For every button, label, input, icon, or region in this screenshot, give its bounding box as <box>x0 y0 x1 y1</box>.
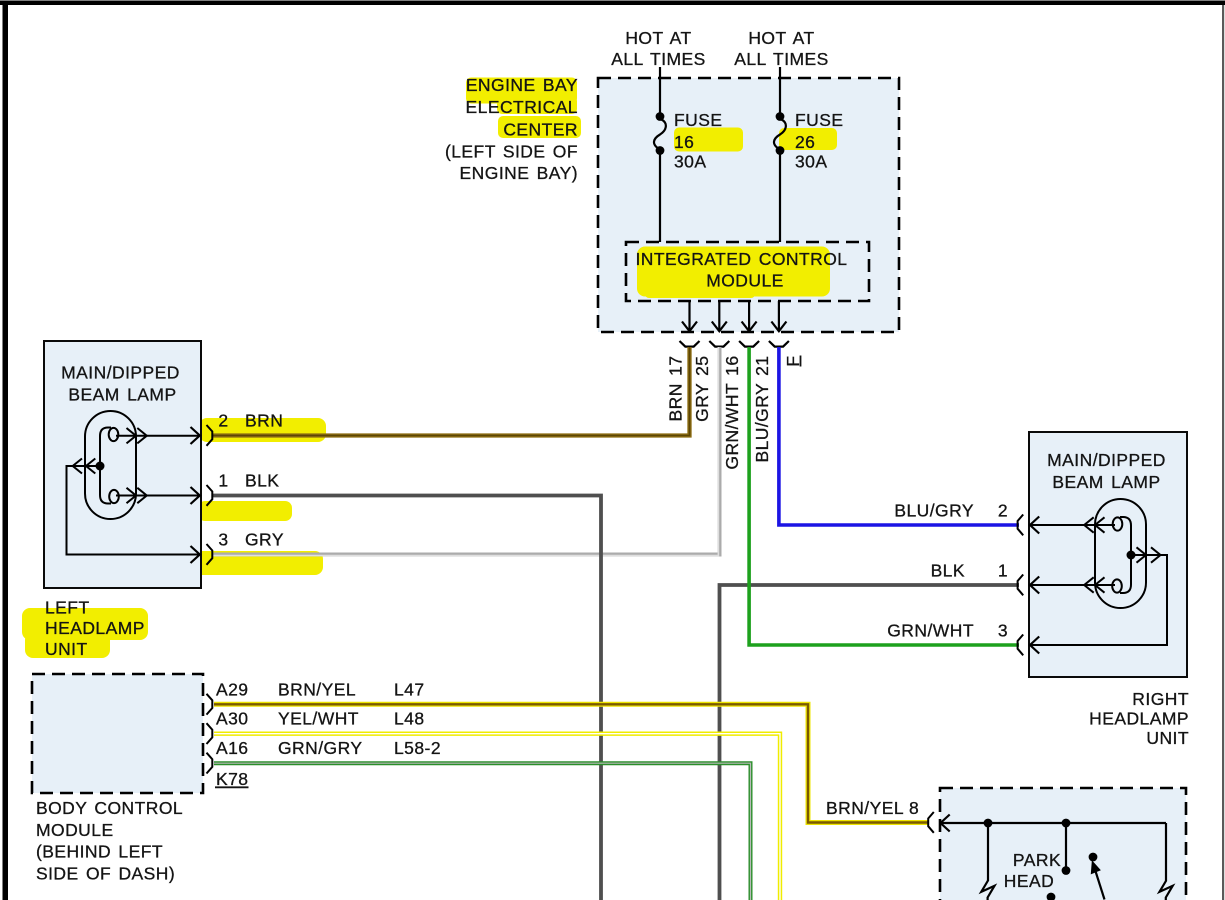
svg-text:HEADLAMP: HEADLAMP <box>45 618 145 638</box>
wire GRN/WHT from ICM pin 16 to right lamp pin 3 <box>749 347 1019 645</box>
wire fuse 16 to ICM <box>659 151 661 242</box>
svg-text:L47: L47 <box>394 680 425 700</box>
highlight fuse 26 <box>779 128 837 150</box>
svg-text:FUSE: FUSE <box>795 110 843 130</box>
svg-text:GRY 25: GRY 25 <box>692 356 712 422</box>
svg-text:BLU/GRY 21: BLU/GRY 21 <box>752 356 772 463</box>
fuse F26 <box>774 112 786 155</box>
left lamp connector bracket pin 3 <box>207 544 213 565</box>
connector cup pin 16 <box>739 341 759 347</box>
wire BLK to right lamp pin 1 <box>720 585 1020 900</box>
label engine bay electrical center <box>445 75 578 183</box>
ICM output arrow pin BRN <box>682 301 697 331</box>
svg-text:HOT AT: HOT AT <box>625 28 691 48</box>
label right headlamp unit <box>1089 689 1189 748</box>
svg-text:BRN 17: BRN 17 <box>666 356 686 422</box>
svg-text:BRN/YEL: BRN/YEL <box>278 680 356 700</box>
svg-text:BLU/GRY: BLU/GRY <box>894 501 974 521</box>
label body control module <box>36 798 183 883</box>
label main/dipped beam lamp left <box>61 363 180 405</box>
park branch zigzag contact <box>981 881 994 900</box>
right lamp common arrowheads <box>1030 547 1161 653</box>
svg-text:PARK: PARK <box>1013 850 1061 870</box>
right lamp connector bracket pin 1 <box>1018 575 1024 596</box>
junction dot head branch <box>1062 819 1071 828</box>
left lamp filament arrowheads pin 1 <box>127 487 200 504</box>
switch lever arrow <box>1092 862 1105 900</box>
wire BLK from left lamp pin 1 down <box>213 496 601 900</box>
svg-text:L58-2: L58-2 <box>394 738 441 758</box>
K78 underline <box>215 786 249 788</box>
lower contact dot <box>1047 893 1056 900</box>
svg-text:2: 2 <box>998 501 1008 521</box>
right lamp common wire to pin 3 <box>1031 555 1168 645</box>
left lamp inner bracket <box>100 428 111 504</box>
svg-text:ENGINE BAY: ENGINE BAY <box>466 75 578 95</box>
svg-text:BRN: BRN <box>245 411 283 431</box>
park/head bus wire <box>941 822 1167 824</box>
svg-text:K78: K78 <box>216 769 249 789</box>
label BLK 1 <box>931 561 1009 581</box>
svg-text:YEL/WHT: YEL/WHT <box>278 709 359 729</box>
BCM connector bracket A29 <box>207 694 213 715</box>
right lamp filament line pin 1 <box>1031 584 1116 586</box>
label A30 YEL/WHT L48 <box>216 709 425 729</box>
wire fuse 16 feed <box>659 67 661 116</box>
left lamp common wire to pin 3 <box>67 466 200 555</box>
svg-text:CENTER: CENTER <box>503 120 578 140</box>
svg-text:ENGINE BAY): ENGINE BAY) <box>460 163 578 183</box>
label GRN/WHT 3 <box>887 621 1008 641</box>
label left headlamp unit <box>45 598 145 660</box>
svg-text:BRN/YEL: BRN/YEL <box>826 798 904 818</box>
label A16 GRN/GRY L58-2 <box>216 738 441 758</box>
svg-text:UNIT: UNIT <box>1146 728 1189 748</box>
svg-text:GRN/WHT 16: GRN/WHT 16 <box>722 356 742 470</box>
svg-text:HOT AT: HOT AT <box>748 28 814 48</box>
junction dot park branch <box>984 819 993 828</box>
left lamp common arrowheads <box>73 459 200 564</box>
right lamp outer envelope <box>1095 499 1146 608</box>
wire GRN/GRY from BCM A16 down <box>214 763 751 900</box>
body control module box <box>32 674 203 793</box>
connector cup pin 17 <box>680 341 700 347</box>
right lamp coil pin 1 <box>1112 579 1122 592</box>
label HOT AT ALL TIMES right <box>734 28 829 69</box>
right lamp filament arrowheads pin 2 <box>1030 517 1105 534</box>
svg-text:MAIN/DIPPED: MAIN/DIPPED <box>61 363 180 383</box>
svg-text:A16: A16 <box>216 738 249 758</box>
head branch contact dot <box>1062 866 1071 875</box>
switch throw contact dot <box>1089 853 1098 862</box>
right lamp inner bracket <box>1120 517 1131 593</box>
wire BLU/GRY from ICM pin 21 to right lamp pin 2 <box>779 347 1019 525</box>
right lamp connector bracket pin 3 <box>1018 635 1024 656</box>
right headlamp unit box <box>1029 432 1187 677</box>
highlight fuse 16 <box>674 128 743 152</box>
label HOT AT ALL TIMES left <box>611 28 706 69</box>
wire BRN/YEL from BCM A29 to park/head connector 8 <box>214 704 928 822</box>
wire fuse 26 feed <box>779 67 781 116</box>
svg-text:8: 8 <box>909 798 919 818</box>
label BRN/YEL 8 <box>826 798 919 818</box>
highlight left headlamp unit label <box>22 608 148 658</box>
right side zigzag contact <box>1160 881 1173 900</box>
park/head connector bracket 8 <box>928 812 934 833</box>
svg-text:HEADLAMP: HEADLAMP <box>1089 709 1189 729</box>
label F underline <box>800 356 802 367</box>
svg-text:BEAM LAMP: BEAM LAMP <box>1052 472 1160 492</box>
label BLU/GRY 2 <box>894 501 1008 521</box>
wire fuse 26 to ICM <box>779 151 781 242</box>
svg-text:1: 1 <box>998 561 1008 581</box>
left headlamp unit box <box>44 341 201 588</box>
svg-text:MAIN/DIPPED: MAIN/DIPPED <box>1047 450 1166 470</box>
svg-text:A29: A29 <box>216 680 249 700</box>
svg-text:L48: L48 <box>394 709 425 729</box>
park/head switch box <box>940 788 1186 900</box>
park/head entry arrowhead <box>941 815 950 832</box>
BCM connector bracket A16 <box>207 753 213 774</box>
svg-text:INTEGRATED CONTROL: INTEGRATED CONTROL <box>635 249 847 269</box>
connector cup pin 25 <box>709 341 729 347</box>
head branch wire <box>1065 823 1067 868</box>
page top border <box>0 1 1225 6</box>
right lamp connector bracket pin 2 <box>1018 515 1024 536</box>
svg-text:16: 16 <box>674 132 694 152</box>
svg-text:(LEFT SIDE OF: (LEFT SIDE OF <box>445 142 578 162</box>
svg-text:SIDE OF DASH): SIDE OF DASH) <box>36 863 175 883</box>
svg-text:BLK: BLK <box>245 471 279 491</box>
svg-text:3: 3 <box>218 530 228 550</box>
svg-text:1: 1 <box>218 471 228 491</box>
left lamp connector bracket pin 2 <box>207 425 213 446</box>
wire BRN from left lamp pin 2 to ICM pin 17 <box>213 347 690 436</box>
right lamp coil pin 2 <box>1113 517 1123 530</box>
page right border <box>1222 5 1224 900</box>
svg-text:MODULE: MODULE <box>706 271 784 291</box>
svg-text:BLK: BLK <box>931 561 965 581</box>
label fuse 16 <box>674 110 722 172</box>
fuse F16 <box>654 112 666 155</box>
svg-text:GRN/WHT: GRN/WHT <box>887 621 974 641</box>
label pin 1 BLK <box>218 471 279 491</box>
label A29 BRN/YEL L47 <box>216 680 425 700</box>
highlight ENGINE BAY <box>466 78 577 115</box>
label pin 2 BRN <box>218 411 283 431</box>
svg-text:(BEHIND LEFT: (BEHIND LEFT <box>36 842 163 862</box>
svg-text:30A: 30A <box>795 152 828 172</box>
svg-text:BODY CONTROL: BODY CONTROL <box>36 798 183 818</box>
right lamp filament arrowheads pin 1 <box>1030 577 1105 594</box>
connector cup pin 21 <box>769 341 789 347</box>
highlight wire 2 BRN <box>199 418 326 442</box>
svg-text:LEFT: LEFT <box>45 598 90 618</box>
svg-text:HEAD: HEAD <box>1004 871 1054 891</box>
left lamp coil pin 2 <box>109 428 119 441</box>
svg-text:BEAM LAMP: BEAM LAMP <box>68 385 176 405</box>
left lamp filament line pin 1 <box>116 495 200 497</box>
highlight integrated control module <box>637 247 830 299</box>
wire YEL/WHT from BCM A30 down <box>214 734 780 900</box>
left lamp coil pin 1 <box>109 490 119 503</box>
svg-text:FUSE: FUSE <box>674 110 722 130</box>
svg-text:2: 2 <box>218 411 228 431</box>
wire GRY from left lamp pin 3 to ICM pin 25 <box>213 347 720 556</box>
svg-text:GRN/GRY: GRN/GRY <box>278 738 363 758</box>
svg-text:GRY: GRY <box>245 530 284 550</box>
BCM connector bracket A30 <box>207 723 213 744</box>
svg-text:UNIT: UNIT <box>45 639 88 659</box>
left lamp outer envelope <box>85 411 136 519</box>
svg-text:ALL TIMES: ALL TIMES <box>611 49 706 69</box>
svg-text:30A: 30A <box>674 152 707 172</box>
page left border <box>3 1 9 900</box>
park branch wire <box>987 823 989 881</box>
left lamp filament line pin 2 <box>116 435 200 437</box>
svg-text:3: 3 <box>998 621 1008 641</box>
engine bay electrical center box <box>598 78 899 332</box>
ICM output arrow pin BLU/GRY <box>771 301 786 331</box>
label main/dipped beam lamp right <box>1047 450 1166 492</box>
label pin 3 GRY <box>218 530 284 550</box>
right lamp filament line pin 2 <box>1031 524 1116 526</box>
highlight under wire 1 BLK <box>198 501 292 521</box>
right lamp common node dot <box>1127 551 1136 560</box>
svg-text:A30: A30 <box>216 709 249 729</box>
integrated control module U1 box <box>626 242 869 301</box>
svg-text:MODULE: MODULE <box>36 820 114 840</box>
svg-text:RIGHT: RIGHT <box>1132 689 1189 709</box>
svg-text:ELECTRICAL: ELECTRICAL <box>466 97 578 117</box>
label fuse 26 <box>795 110 843 172</box>
left lamp filament arrowheads pin 2 <box>127 427 200 444</box>
svg-text:26: 26 <box>795 132 815 152</box>
right side branch wire <box>1165 823 1167 881</box>
highlight wire 3 GRY <box>193 551 323 575</box>
svg-text:ALL TIMES: ALL TIMES <box>734 49 829 69</box>
ICM output arrow pin GRN/WHT <box>742 301 757 331</box>
left lamp connector bracket pin 1 <box>207 485 213 506</box>
highlight CENTER <box>498 116 581 138</box>
ICM output arrow pin GRY <box>712 301 727 331</box>
left lamp common node dot <box>96 462 105 471</box>
label integrated control module <box>635 249 847 291</box>
